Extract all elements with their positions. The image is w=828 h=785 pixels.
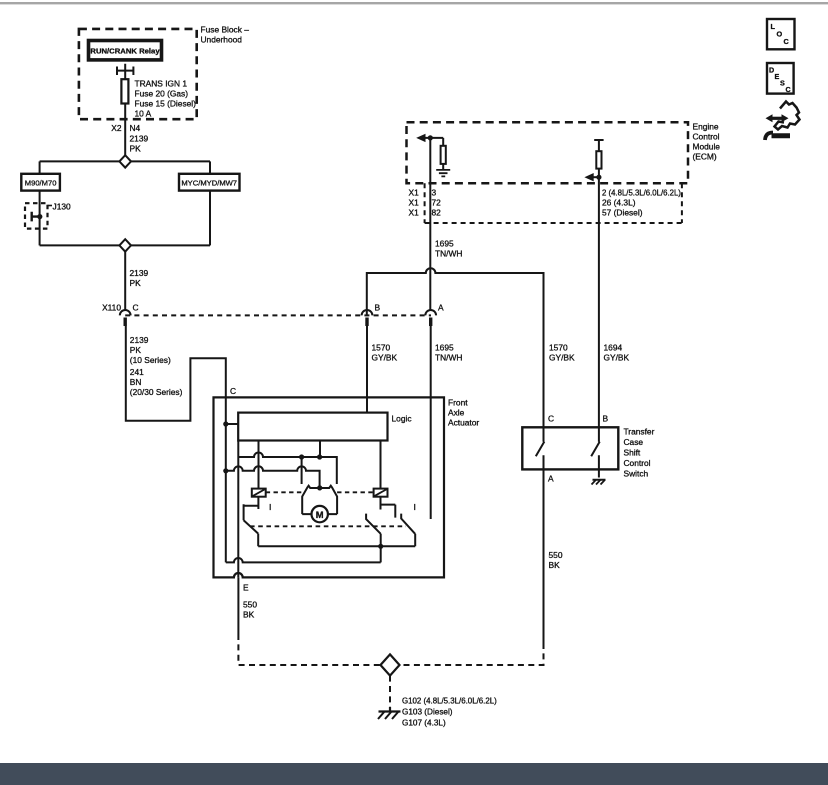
wire A connector into actuator: [430, 326, 432, 519]
splice diamond S3: [381, 654, 400, 675]
svg-text:Case: Case: [624, 437, 644, 447]
wire 550 BK right dashed tail: [400, 643, 544, 665]
svg-text:BN: BN: [130, 377, 142, 387]
ECM internal ground: [436, 170, 450, 177]
svg-text:GY/BK: GY/BK: [372, 353, 398, 363]
switch contact at C: [536, 427, 545, 469]
svg-text:Module: Module: [693, 142, 721, 152]
motor housing cap: [302, 486, 337, 514]
svg-text:M90/M70: M90/M70: [25, 179, 57, 188]
svg-text:C: C: [784, 37, 790, 46]
DESC button: [767, 63, 794, 94]
switch contact at B: [591, 427, 600, 469]
svg-text:C: C: [133, 303, 139, 313]
svg-text:Front: Front: [448, 398, 468, 408]
connector terminal A bump: [425, 310, 436, 315]
ECM internal arrow right: [590, 176, 599, 178]
svg-text:J130: J130: [53, 202, 72, 212]
ECM pull-up resistor R2: [596, 151, 601, 168]
wire splice to ground dashed: [389, 676, 391, 707]
svg-text:Control: Control: [624, 458, 651, 468]
svg-text:B: B: [603, 414, 609, 424]
right contact blade second: [401, 514, 415, 547]
svg-text:2139: 2139: [130, 134, 149, 144]
svg-text:C: C: [230, 386, 236, 396]
splice diamond S1: [119, 155, 131, 167]
front axle actuator outer box: [214, 397, 445, 577]
ECM connector pin box dashed: [425, 183, 682, 223]
svg-text:O: O: [777, 30, 783, 39]
svg-text:TRANS IGN 1: TRANS IGN 1: [135, 78, 188, 88]
left contact blade: [244, 520, 259, 546]
svg-text:(20/30 Series): (20/30 Series): [130, 387, 183, 397]
motor feed stubs: [302, 513, 337, 515]
transfer case shift control switch box: [522, 427, 618, 469]
wire logic drop to right coil: [380, 441, 382, 489]
svg-text:PK: PK: [130, 278, 142, 288]
right contact L-link: [381, 497, 396, 518]
svg-text:I: I: [414, 502, 416, 512]
svg-text:550: 550: [243, 600, 257, 610]
splice diamond S2: [119, 239, 131, 251]
svg-text:A: A: [548, 474, 554, 484]
wire 550 BK left dashed tail: [238, 634, 380, 665]
svg-text:3: 3: [432, 188, 437, 198]
wire logic drop to left coil: [258, 441, 260, 489]
svg-text:S: S: [780, 79, 785, 88]
svg-text:B: B: [375, 303, 381, 313]
svg-text:(10 Series): (10 Series): [130, 355, 171, 365]
svg-text:10 A: 10 A: [135, 108, 152, 118]
top page rule: [0, 2, 828, 4]
svg-text:X1: X1: [409, 208, 420, 218]
splice pack J130: [25, 203, 48, 228]
fuse block underhood dashed box: [79, 29, 197, 119]
wire bus1 to bus2 link: [380, 546, 382, 562]
svg-text:Shift: Shift: [624, 448, 641, 458]
wire 550 BK from switch A: [543, 469, 545, 643]
svg-text:1695: 1695: [435, 343, 454, 353]
wire left branch drop: [39, 161, 41, 173]
svg-text:Actuator: Actuator: [448, 418, 479, 428]
pointer icon double arrow: [771, 117, 784, 120]
svg-text:(ECM): (ECM): [693, 152, 717, 162]
svg-text:GY/BK: GY/BK: [604, 353, 630, 363]
svg-text:Underhood: Underhood: [201, 35, 243, 45]
svg-text:2139: 2139: [130, 335, 149, 345]
wire logic drop to rail1: [319, 441, 321, 458]
wire bottom rail of branch loop: [40, 244, 210, 246]
wire 1570 GY/BK cross link with hump over 1695: [367, 268, 544, 427]
wire B connector to logic: [366, 326, 368, 413]
svg-text:I: I: [269, 502, 271, 512]
pointer icon outline: [775, 102, 800, 130]
wire splice S2 to connector X110: [124, 252, 126, 310]
wire right branch drop: [209, 191, 211, 246]
wire brush contact left: [301, 457, 303, 484]
bottom toolbar band: [0, 763, 828, 785]
svg-text:Engine: Engine: [693, 122, 719, 132]
wire 1694 GY/BK ECM to switch B: [598, 177, 600, 427]
svg-text:A: A: [438, 303, 444, 313]
svg-text:X1: X1: [409, 188, 420, 198]
svg-text:X1: X1: [409, 198, 420, 208]
wire bus2: [226, 558, 381, 562]
wire E drop from logic corner: [237, 441, 239, 578]
svg-text:1570: 1570: [549, 343, 568, 353]
svg-text:1570: 1570: [372, 343, 391, 353]
connector X110 dashed line: [125, 314, 431, 316]
svg-text:Logic: Logic: [392, 414, 412, 424]
wire left branch through J130: [39, 191, 41, 246]
motor M1: [312, 506, 328, 522]
svg-text:Fuse 15 (Diesel): Fuse 15 (Diesel): [135, 98, 197, 108]
svg-text:MYC/MYD/MW7: MYC/MYD/MW7: [181, 179, 237, 188]
svg-text:2139: 2139: [130, 268, 149, 278]
connector terminal C bump: [120, 310, 131, 315]
svg-text:C: C: [786, 85, 791, 94]
svg-text:GY/BK: GY/BK: [549, 353, 575, 363]
wire rail1 below logic: [238, 453, 336, 485]
svg-text:Transfer: Transfer: [624, 427, 655, 437]
linkage dashed lower: [250, 525, 406, 527]
ECM dashed box: [407, 122, 689, 183]
svg-text:Axle: Axle: [448, 408, 465, 418]
svg-text:Switch: Switch: [624, 469, 649, 479]
relay contact symbol: [117, 64, 133, 79]
wire bus1: [258, 545, 415, 547]
ECM pull-up resistor R1: [442, 138, 444, 169]
svg-text:X2: X2: [111, 123, 122, 133]
switch chassis ground: [593, 469, 606, 479]
svg-text:26 (4.3L): 26 (4.3L): [602, 198, 636, 208]
svg-text:PK: PK: [130, 144, 142, 154]
svg-text:M: M: [316, 509, 324, 520]
svg-text:E: E: [243, 583, 249, 593]
ECM internal right stub: [594, 140, 603, 151]
svg-text:2 (4.8L/5.3L/6.0L/6.2L): 2 (4.8L/5.3L/6.0L/6.2L): [602, 189, 681, 198]
svg-text:72: 72: [432, 198, 442, 208]
svg-text:PK: PK: [130, 345, 142, 355]
svg-text:1694: 1694: [604, 343, 623, 353]
svg-text:G103 (Diesel): G103 (Diesel): [402, 708, 453, 717]
wire 2139/241 zigzag to actuator C: [126, 326, 226, 421]
svg-text:L: L: [771, 22, 776, 31]
svg-text:G107 (4.3L): G107 (4.3L): [402, 719, 446, 728]
svg-text:N4: N4: [130, 123, 141, 133]
pointer icon base bar: [772, 133, 791, 138]
svg-text:BK: BK: [549, 560, 561, 570]
svg-text:1695: 1695: [435, 239, 454, 249]
wire fuse output to splice: [124, 104, 126, 156]
fuse TRANS IGN 1: [121, 79, 128, 103]
relay coil right: [374, 489, 388, 497]
relay coil left: [252, 489, 266, 497]
linkage dashed upper: [266, 491, 374, 493]
box M90/M70: [21, 174, 60, 191]
wire railB crossover rail: [226, 466, 320, 488]
svg-text:241: 241: [130, 367, 144, 377]
svg-text:RUN/CRANK Relay: RUN/CRANK Relay: [90, 47, 160, 56]
relay RUN/CRANK: [89, 41, 162, 60]
svg-text:D: D: [769, 66, 774, 75]
ECM internal arrow left: [422, 137, 443, 139]
svg-text:X110: X110: [102, 303, 121, 313]
LOC button: [767, 19, 795, 49]
svg-text:550: 550: [549, 550, 563, 560]
wire 550 BK from actuator E: [237, 577, 239, 634]
ECM internal junction dot: [428, 135, 433, 140]
right contact blade A-side: [366, 514, 381, 547]
ground G102/G103/G107: [379, 707, 401, 712]
wire C rail inside actuator: [226, 397, 238, 562]
svg-text:57 (Diesel): 57 (Diesel): [602, 208, 643, 218]
svg-text:C: C: [548, 414, 554, 424]
svg-text:TN/WH: TN/WH: [435, 353, 462, 363]
connector terminal B bump: [362, 310, 373, 315]
left contact L-link: [244, 497, 259, 521]
svg-text:BK: BK: [243, 610, 255, 620]
svg-text:E: E: [775, 72, 780, 81]
wire 1695 TN/WH ECM to connector A: [429, 138, 431, 310]
logic module box: [238, 413, 387, 441]
wire top rail of branch loop: [40, 160, 210, 162]
wire right branch: [209, 161, 211, 173]
svg-text:Fuse Block –: Fuse Block –: [201, 25, 250, 35]
svg-text:Control: Control: [693, 132, 720, 142]
svg-text:G102 (4.8L/5.3L/6.0L/6.2L): G102 (4.8L/5.3L/6.0L/6.2L): [402, 697, 497, 706]
svg-text:Fuse 20 (Gas): Fuse 20 (Gas): [135, 88, 189, 98]
svg-text:82: 82: [432, 208, 442, 218]
svg-text:TN/WH: TN/WH: [435, 249, 462, 259]
box MYC/MYD/MW7: [179, 174, 240, 191]
